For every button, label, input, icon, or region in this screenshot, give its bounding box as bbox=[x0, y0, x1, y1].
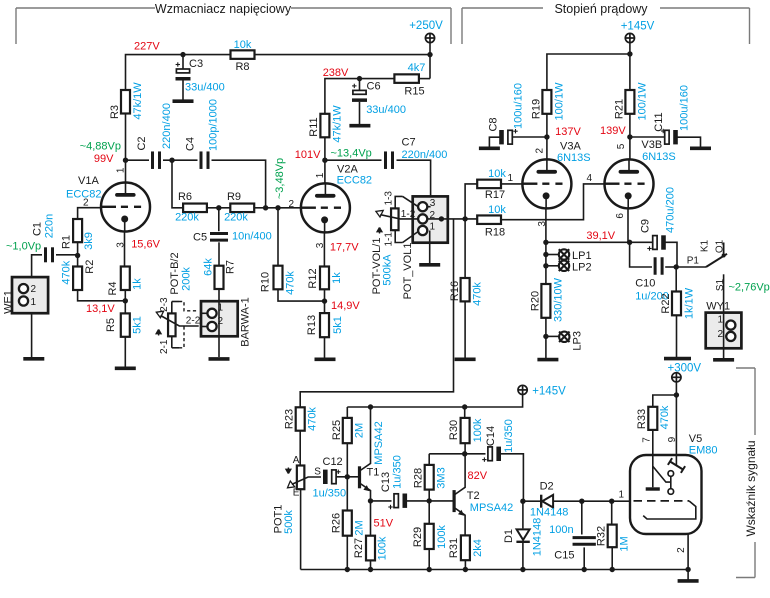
wire 101V to C7 bbox=[325, 159, 382, 161]
svg-text:R1: R1 bbox=[61, 235, 73, 249]
wire +145V bottom rail bbox=[347, 394, 522, 407]
svg-text:R25: R25 bbox=[331, 420, 343, 440]
svg-text:100/1W: 100/1W bbox=[553, 82, 565, 121]
section bracket right part2 bbox=[660, 7, 750, 9]
node wiper R16R17R18 bbox=[462, 216, 467, 221]
svg-text:2-2: 2-2 bbox=[186, 316, 201, 327]
svg-text:220k: 220k bbox=[175, 212, 199, 224]
wire C1 to R1R2 node bbox=[56, 254, 78, 256]
wire R16 drop bbox=[464, 219, 466, 278]
wire V1A grid bbox=[78, 208, 102, 219]
ground below POT_VOL1 bbox=[419, 263, 440, 267]
wire 82V to C14 bbox=[465, 453, 486, 455]
svg-text:C8: C8 bbox=[488, 117, 500, 131]
wire C11 to ground bbox=[677, 137, 701, 147]
resistor R9 bbox=[230, 204, 254, 213]
resistor R17 bbox=[477, 180, 501, 189]
svg-text:~13,4Vp: ~13,4Vp bbox=[331, 147, 372, 159]
svg-text:100p/1000: 100p/1000 bbox=[207, 99, 219, 151]
wire R21 to V3B anode bbox=[629, 114, 631, 160]
node grid V2A junction bbox=[263, 205, 268, 210]
svg-text:R21: R21 bbox=[613, 99, 625, 119]
svg-text:C13: C13 bbox=[380, 472, 392, 492]
pot B lead bottom tick bbox=[172, 347, 179, 349]
wire R30 top bbox=[464, 407, 466, 418]
svg-text:1-1: 1-1 bbox=[383, 232, 394, 247]
svg-text:+145V: +145V bbox=[532, 385, 566, 397]
pin stub BARWA-1 pin1 bbox=[201, 312, 208, 314]
wire base to R26 bbox=[346, 477, 348, 511]
node D2 anode bbox=[520, 499, 525, 504]
wire R22 to ground bbox=[676, 315, 678, 357]
resistor R10 bbox=[274, 266, 283, 290]
wire +145V to R21 bbox=[629, 43, 631, 90]
svg-text:T1: T1 bbox=[367, 467, 380, 479]
svg-text:1: 1 bbox=[717, 315, 723, 326]
wire 39,1V to C9 bbox=[630, 241, 653, 243]
wire POT_VOL1 pin1 to ground bbox=[429, 231, 431, 264]
node 99V anode junction bbox=[123, 158, 128, 163]
potentiometer POT-VOL/1 body bbox=[391, 208, 399, 230]
capacitor C13 plus bbox=[388, 505, 392, 509]
svg-text:R17: R17 bbox=[485, 189, 505, 201]
svg-text:220k: 220k bbox=[224, 212, 248, 224]
node R10 tap bbox=[275, 205, 280, 210]
svg-text:5k1: 5k1 bbox=[332, 316, 344, 334]
wire bottom rail bbox=[301, 569, 688, 571]
svg-text:99V: 99V bbox=[94, 153, 114, 165]
svg-text:R3: R3 bbox=[109, 105, 121, 119]
svg-text:47k/1W: 47k/1W bbox=[331, 105, 343, 143]
wire R32 bottom bbox=[611, 547, 613, 569]
svg-text:6N13S: 6N13S bbox=[642, 151, 676, 163]
wire D1 drop bbox=[522, 501, 524, 528]
node R30 feed bbox=[462, 404, 467, 409]
wire R28 link bbox=[429, 453, 465, 455]
svg-text:POT-B/2: POT-B/2 bbox=[169, 252, 181, 294]
node rail C15 bbox=[582, 567, 587, 572]
svg-text:+145V: +145V bbox=[621, 21, 655, 33]
wire R20 to ground bbox=[545, 318, 547, 358]
svg-text:Stopień prądowy: Stopień prądowy bbox=[554, 2, 648, 16]
ground at C11 bbox=[690, 147, 711, 151]
pot B coupling dash bottom bbox=[179, 326, 184, 348]
svg-text:V1A: V1A bbox=[78, 175, 99, 187]
svg-text:1: 1 bbox=[507, 173, 513, 184]
svg-text:ECC82: ECC82 bbox=[337, 175, 372, 187]
wire C7 to POT_VOL1 bbox=[397, 160, 431, 207]
power symbol +250V bbox=[425, 33, 434, 42]
node 13,1V junction bbox=[123, 298, 128, 303]
svg-text:C3: C3 bbox=[189, 58, 203, 70]
wire R6 to R9 bbox=[207, 207, 230, 209]
svg-text:POT_VOL1: POT_VOL1 bbox=[402, 243, 414, 300]
svg-text:R32: R32 bbox=[596, 526, 608, 546]
V5 triode anode diagonal bbox=[653, 466, 671, 482]
wire C9 to corner bbox=[665, 242, 677, 267]
ground below R22 bbox=[664, 357, 691, 361]
capacitor C15 bbox=[573, 538, 596, 545]
svg-text:470u/200: 470u/200 bbox=[664, 187, 676, 233]
wire C3 top bbox=[182, 55, 184, 69]
svg-text:1: 1 bbox=[218, 303, 224, 314]
svg-text:33u/400: 33u/400 bbox=[366, 104, 406, 116]
wire base node to R29 bbox=[428, 501, 430, 524]
pot VOL turn arrow bbox=[377, 228, 382, 234]
diode D2 cathode bar bbox=[540, 495, 542, 508]
ground below WE1 bbox=[23, 357, 44, 361]
svg-text:K1: K1 bbox=[699, 239, 710, 252]
pin circle POT_VOL1 2 bbox=[418, 214, 427, 223]
resistor R32 bbox=[608, 525, 617, 548]
node T1 base bbox=[345, 474, 350, 479]
wire R8 right to +250V bbox=[255, 54, 431, 56]
svg-text:137V: 137V bbox=[555, 126, 581, 138]
resistor R18 bbox=[477, 215, 501, 224]
pot VOL bottom diagonal bbox=[403, 232, 419, 243]
node 139V junction bbox=[627, 134, 632, 139]
wire into POT_VOL1 pin3 bbox=[427, 206, 430, 208]
svg-text:BARWA-1: BARWA-1 bbox=[239, 297, 251, 347]
svg-text:R28: R28 bbox=[413, 468, 425, 488]
svg-text:R22: R22 bbox=[660, 293, 672, 313]
pot VOL lead bottom bbox=[395, 230, 402, 242]
resistor R29 bbox=[425, 524, 434, 549]
lamp LP2 bbox=[559, 261, 569, 271]
svg-text:64k: 64k bbox=[202, 258, 214, 276]
section bracket left tick-l bbox=[15, 8, 17, 44]
potentiometer POT-B/2 body bbox=[168, 313, 176, 336]
capacitor C10 bbox=[655, 257, 662, 275]
svg-text:V3A: V3A bbox=[560, 141, 581, 153]
svg-text:R9: R9 bbox=[227, 191, 241, 203]
pot VOL wiper arrowhead bbox=[376, 210, 383, 217]
wire R28 top bbox=[428, 454, 430, 465]
svg-text:1: 1 bbox=[116, 167, 127, 173]
svg-text:100k: 100k bbox=[377, 536, 389, 560]
resistor R3 bbox=[121, 90, 130, 114]
wire R3 to V1A anode bbox=[125, 114, 127, 184]
V5 knife tick 2 bbox=[681, 466, 685, 473]
svg-text:5k1: 5k1 bbox=[131, 316, 143, 334]
svg-text:100k: 100k bbox=[436, 525, 448, 549]
wire 227V rail bbox=[126, 55, 231, 90]
svg-text:6: 6 bbox=[615, 213, 626, 219]
wire R13 to ground bbox=[324, 337, 326, 358]
svg-text:470k: 470k bbox=[307, 407, 319, 431]
svg-text:1k/1W: 1k/1W bbox=[683, 287, 695, 319]
svg-text:R13: R13 bbox=[306, 315, 318, 335]
ground below R5 bbox=[115, 366, 136, 370]
svg-text:1k: 1k bbox=[131, 278, 143, 290]
wire V1A cathode to R4 bbox=[124, 231, 126, 267]
resistor R20 bbox=[541, 284, 550, 318]
wire through BARWA-1 bbox=[218, 301, 220, 357]
wire R1 to R2 bbox=[77, 242, 79, 266]
diode D1 triangle bbox=[517, 529, 530, 540]
svg-text:1: 1 bbox=[315, 172, 326, 178]
capacitor C6 plus bbox=[352, 84, 356, 88]
ground below R20 bbox=[537, 358, 558, 362]
node LP2 tap bbox=[543, 263, 548, 268]
svg-text:R6: R6 bbox=[178, 191, 192, 203]
svg-text:R27: R27 bbox=[353, 538, 365, 558]
wire R22 drop bbox=[675, 267, 677, 292]
wire +250V down to R15 corner bbox=[429, 43, 431, 79]
node 101V junction bbox=[322, 158, 327, 163]
pot VOL top diagonal bbox=[403, 196, 419, 206]
wire 145V rail to R19 bbox=[547, 54, 630, 90]
ground below BARWA-1 bbox=[209, 357, 230, 361]
pin circle BARWA-1 1 bbox=[207, 309, 216, 318]
wire R25 to base bbox=[346, 443, 348, 477]
relay contact K1 fixed stub bbox=[723, 243, 725, 257]
node rail R29 bbox=[427, 567, 432, 572]
svg-text:100k: 100k bbox=[472, 418, 484, 442]
wire C8 to ground bbox=[489, 137, 500, 147]
resistor R27 bbox=[366, 536, 375, 561]
svg-text:R18: R18 bbox=[485, 227, 505, 239]
tube V3B bbox=[605, 159, 654, 208]
pot1 wiper bbox=[292, 477, 321, 484]
resistor R4 bbox=[121, 267, 130, 291]
connector WE1 box bbox=[12, 277, 48, 313]
wire rail to ground bbox=[687, 570, 689, 580]
svg-text:R23: R23 bbox=[284, 409, 296, 429]
wire R32 top bbox=[611, 501, 613, 524]
capacitor C3 bbox=[176, 69, 189, 73]
svg-text:100u/160: 100u/160 bbox=[678, 85, 690, 131]
node R28 R29 tap bbox=[427, 498, 432, 503]
wire through WY1 bbox=[723, 313, 725, 358]
svg-text:82V: 82V bbox=[468, 470, 488, 482]
svg-text:~1,0Vp: ~1,0Vp bbox=[6, 241, 41, 253]
wire R6R9 node down to C5 bbox=[218, 208, 220, 231]
resistor R31 bbox=[461, 535, 470, 560]
svg-text:10n/400: 10n/400 bbox=[232, 230, 272, 242]
wire +300V down bbox=[675, 382, 677, 466]
wire R5 to ground bbox=[124, 337, 126, 367]
svg-text:17,7V: 17,7V bbox=[330, 242, 359, 254]
capacitor C14 plus bbox=[482, 457, 486, 461]
pot B lead top bbox=[171, 302, 173, 314]
svg-text:5: 5 bbox=[616, 143, 627, 149]
svg-text:S1: S1 bbox=[715, 278, 726, 291]
wire emitter to C13 bbox=[371, 500, 392, 502]
svg-text:R20: R20 bbox=[529, 291, 541, 311]
transistor T2 emitter arrow bbox=[458, 510, 464, 516]
node R32 top bbox=[609, 499, 614, 504]
wire C10 branch bbox=[630, 242, 652, 267]
capacitor C12 plus bbox=[336, 470, 340, 474]
wire R12 to R13 bbox=[324, 289, 326, 313]
svg-text:~4,88Vp: ~4,88Vp bbox=[80, 141, 121, 153]
svg-text:R5: R5 bbox=[105, 318, 117, 332]
transistor T1 emitter arrow bbox=[363, 485, 369, 491]
node rail R27 bbox=[368, 567, 373, 572]
wire S1 to WY1 bbox=[723, 274, 725, 312]
svg-text:P1: P1 bbox=[687, 255, 700, 266]
svg-text:E: E bbox=[293, 488, 300, 499]
section bracket right tick-l bbox=[461, 8, 463, 44]
wire R10 drop bbox=[277, 208, 279, 266]
svg-text:220n/400: 220n/400 bbox=[402, 149, 448, 161]
svg-text:1M: 1M bbox=[619, 536, 631, 551]
pin circle WE1 2 bbox=[19, 284, 28, 293]
capacitor C8 bbox=[499, 130, 504, 144]
capacitor C2 bbox=[153, 151, 160, 169]
svg-text:O1: O1 bbox=[714, 239, 725, 253]
transistor T1 collector bbox=[360, 407, 371, 471]
svg-text:15,6V: 15,6V bbox=[131, 239, 160, 251]
resistor R11 bbox=[320, 114, 329, 138]
indicator bracket bottom tick bbox=[736, 577, 755, 579]
V5 deflection electrode bottom bbox=[668, 489, 674, 495]
svg-text:2: 2 bbox=[535, 147, 546, 153]
tube V5 envelope bbox=[630, 455, 702, 534]
resistor R33 bbox=[648, 407, 657, 430]
svg-text:MPSA42: MPSA42 bbox=[373, 421, 385, 464]
pin circle POT_VOL1 1 bbox=[418, 226, 427, 235]
wire V3B cathode down bbox=[627, 208, 629, 242]
svg-text:33u/400: 33u/400 bbox=[185, 82, 225, 94]
node 14,9V junction bbox=[322, 298, 327, 303]
V5 deflection electrode top bbox=[668, 471, 674, 477]
pin circle WY1 2 bbox=[726, 332, 735, 341]
svg-text:+300V: +300V bbox=[668, 362, 702, 374]
section bracket left tick-r bbox=[450, 8, 452, 44]
resistor R15 bbox=[394, 74, 419, 83]
node T1 emitter bbox=[368, 498, 373, 503]
node C2-C4 junction bbox=[169, 158, 174, 163]
node rail V5 pin2 bbox=[685, 567, 690, 572]
section bracket right tick-r bbox=[749, 8, 751, 44]
svg-text:39,1V: 39,1V bbox=[586, 230, 615, 242]
transistor T2 collector bbox=[454, 454, 465, 495]
pin stub BARWA-1 pin2 bbox=[201, 326, 208, 328]
wire D1 to rail bbox=[522, 541, 524, 569]
wire WE1 to ground bbox=[31, 313, 33, 357]
svg-text:470k: 470k bbox=[284, 271, 296, 295]
svg-text:3: 3 bbox=[430, 198, 436, 209]
wire R9 to V2A grid bbox=[254, 207, 301, 209]
svg-text:1: 1 bbox=[31, 297, 37, 308]
wire 39,1V link bbox=[546, 241, 630, 243]
capacitor C11 bbox=[665, 130, 669, 144]
capacitor C14 bbox=[488, 447, 492, 461]
svg-text:R2: R2 bbox=[84, 260, 96, 274]
node T1 collector feed bbox=[368, 404, 373, 409]
svg-text:6N13S: 6N13S bbox=[557, 152, 591, 164]
V5 electrode link bbox=[670, 476, 672, 488]
wire POT1 to rail bbox=[300, 489, 302, 569]
wire R11 to V2A anode bbox=[324, 137, 326, 184]
wire C15 top bbox=[581, 501, 583, 534]
diode D1 cathode bar bbox=[516, 541, 529, 543]
svg-text:C14: C14 bbox=[485, 426, 497, 446]
node R6-R9 junction bbox=[216, 205, 221, 210]
wire C15 bottom bbox=[583, 547, 585, 569]
pot1 wiper arrowhead bbox=[288, 481, 295, 488]
wire LP1 stub bbox=[546, 254, 559, 256]
svg-text:LP2: LP2 bbox=[572, 262, 592, 274]
svg-text:139V: 139V bbox=[600, 125, 626, 137]
wire R17 branch bbox=[465, 184, 477, 219]
svg-text:500k: 500k bbox=[283, 510, 295, 534]
wire R28 bottom bbox=[428, 490, 430, 501]
transistor T1 emitter bbox=[360, 483, 371, 501]
svg-text:Wzmacniacz napięciowy: Wzmacniacz napięciowy bbox=[155, 2, 292, 16]
wire junction down to R6 bbox=[172, 160, 183, 208]
svg-text:R19: R19 bbox=[530, 99, 542, 119]
lamp LP3 bbox=[559, 332, 569, 342]
wire R31 to rail bbox=[464, 560, 466, 569]
svg-text:WE1: WE1 bbox=[2, 290, 14, 314]
ground main rail bbox=[678, 579, 699, 583]
svg-text:V3B: V3B bbox=[641, 139, 662, 151]
pin circle BARWA-1 2 bbox=[207, 322, 216, 331]
V5 deflector knife bbox=[670, 462, 683, 470]
pot VOL lead top bbox=[395, 196, 402, 208]
resistor R6 bbox=[183, 204, 207, 213]
lamp LP1 bbox=[559, 249, 569, 259]
connector WY1 box bbox=[706, 313, 742, 349]
pin circle WY1 1 bbox=[726, 321, 735, 330]
svg-text:LP3: LP3 bbox=[571, 331, 583, 351]
svg-text:R29: R29 bbox=[412, 527, 424, 547]
svg-text:EM80: EM80 bbox=[689, 445, 718, 457]
wire C4 right to grid corner bbox=[212, 160, 266, 208]
resistor R25 bbox=[343, 418, 352, 443]
svg-text:220n: 220n bbox=[44, 214, 56, 238]
ground at C8 bbox=[479, 147, 500, 151]
wire wiper row bbox=[427, 218, 477, 220]
resistor R5 bbox=[121, 313, 130, 336]
wire R26 to rail bbox=[346, 536, 348, 570]
resistor R30 bbox=[461, 418, 470, 443]
svg-text:100u/160: 100u/160 bbox=[512, 83, 524, 129]
node contact point bbox=[722, 254, 726, 258]
svg-text:R10: R10 bbox=[260, 272, 272, 292]
capacitor C8 plus bbox=[513, 129, 517, 133]
potentiometer POT1 body bbox=[297, 466, 305, 490]
pot B wiper arrowhead bbox=[156, 311, 163, 318]
svg-text:+250V: +250V bbox=[409, 20, 443, 32]
node C6 tap bbox=[357, 76, 362, 81]
wire D2 to V5 pin1 bbox=[553, 500, 630, 502]
wire WE1 to C1 bbox=[32, 255, 42, 277]
wire R30 to 82V node bbox=[464, 443, 466, 454]
tube V2A bbox=[301, 183, 350, 232]
node rail D1 bbox=[520, 567, 525, 572]
capacitor C9 plus bbox=[647, 246, 651, 250]
indicator bracket v2 bbox=[754, 542, 756, 578]
pot B wiper bbox=[161, 316, 199, 327]
svg-text:330/10W: 330/10W bbox=[553, 277, 565, 322]
ground below C3 bbox=[173, 99, 194, 103]
wire emitter to R27 bbox=[370, 501, 372, 536]
svg-text:500kA: 500kA bbox=[382, 254, 394, 286]
svg-text:4k7: 4k7 bbox=[408, 62, 426, 74]
svg-text:470k: 470k bbox=[472, 282, 484, 306]
node rail R32 bbox=[610, 567, 615, 572]
transistor T2 emitter bbox=[454, 508, 465, 536]
resistor R22 bbox=[672, 292, 681, 316]
svg-text:2: 2 bbox=[717, 329, 723, 340]
node LP1 tap bbox=[543, 252, 548, 257]
wire C14 to D2 node bbox=[501, 454, 524, 501]
resistor R19 bbox=[542, 90, 551, 114]
